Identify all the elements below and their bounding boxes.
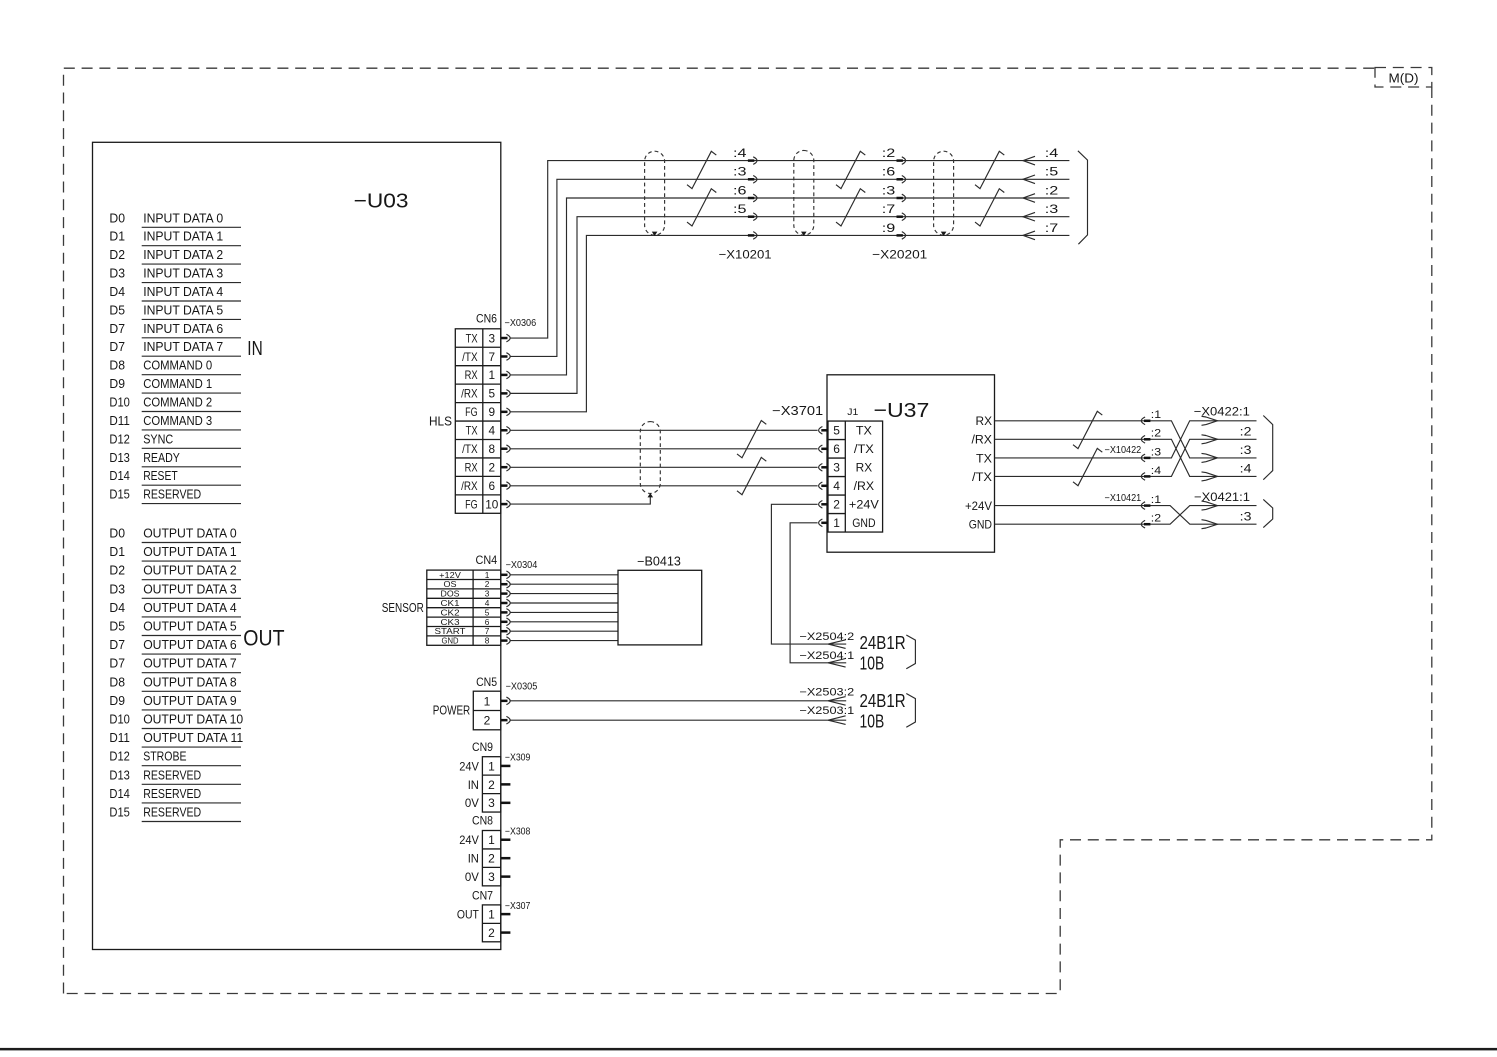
svg-text:2: 2 bbox=[488, 852, 495, 866]
svg-text:24B1R: 24B1R bbox=[860, 690, 906, 711]
svg-text:3: 3 bbox=[833, 461, 840, 475]
wire CN6 TX to U37 J1 via X3701 bbox=[510, 429, 817, 431]
svg-text:10B: 10B bbox=[860, 711, 885, 732]
wire U37 GND to X0421 crossover bbox=[995, 506, 1257, 525]
svg-text:OUTPUT DATA 7: OUTPUT DATA 7 bbox=[143, 656, 237, 671]
svg-text::9: :9 bbox=[882, 221, 896, 235]
svg-text::2: :2 bbox=[882, 146, 896, 160]
svg-text:−X307: −X307 bbox=[505, 901, 531, 912]
U37 connector J1 pin table bbox=[828, 421, 883, 532]
wire CN6 /RX pin5 riser to serial bus line 4 bbox=[510, 217, 1069, 394]
wire CN4 pin3 to B0413 bbox=[510, 593, 618, 595]
svg-text:2: 2 bbox=[484, 714, 491, 728]
svg-text:1: 1 bbox=[489, 368, 496, 382]
svg-text:8: 8 bbox=[485, 636, 490, 646]
svg-text:IN: IN bbox=[468, 852, 479, 866]
svg-text:D9: D9 bbox=[109, 693, 125, 708]
twisted-pair mark X3701 TX pair bbox=[737, 421, 766, 458]
connector CN5 on U03 bbox=[473, 691, 501, 730]
cable shield screen 2 on serial bus bbox=[794, 150, 814, 235]
svg-text:D2: D2 bbox=[109, 563, 125, 578]
svg-text:D2: D2 bbox=[109, 247, 125, 262]
svg-text::7: :7 bbox=[882, 202, 896, 216]
shield X3701 drain junction bbox=[648, 493, 654, 497]
connector CN6 on U03 bbox=[455, 329, 501, 514]
svg-text:OUTPUT DATA 4: OUTPUT DATA 4 bbox=[143, 600, 237, 615]
svg-text:POWER: POWER bbox=[433, 704, 470, 718]
svg-text:−X20201: −X20201 bbox=[872, 248, 927, 262]
svg-text:−X0421:1: −X0421:1 bbox=[1194, 490, 1250, 504]
svg-text:/TX: /TX bbox=[462, 350, 478, 364]
svg-text:10B: 10B bbox=[860, 653, 885, 674]
svg-text:4: 4 bbox=[833, 479, 840, 493]
svg-text:OUTPUT DATA 8: OUTPUT DATA 8 bbox=[143, 674, 237, 689]
svg-text:INPUT DATA 7: INPUT DATA 7 bbox=[143, 339, 223, 354]
svg-text:GND: GND bbox=[969, 518, 992, 532]
svg-text:TX: TX bbox=[976, 451, 992, 465]
svg-text:OUTPUT DATA 1: OUTPUT DATA 1 bbox=[143, 544, 237, 559]
svg-text:24V: 24V bbox=[459, 833, 479, 847]
wire U37 RX to X0422:1 crossover bbox=[995, 421, 1257, 458]
svg-text:−X0304: −X0304 bbox=[506, 560, 538, 571]
svg-text:RX: RX bbox=[465, 460, 478, 474]
svg-text:GND: GND bbox=[442, 636, 459, 646]
svg-text:IN: IN bbox=[468, 778, 479, 792]
cable shield screen 3 on serial bus bbox=[934, 151, 954, 235]
svg-text:J1: J1 bbox=[847, 407, 858, 418]
svg-text:HLS: HLS bbox=[429, 415, 452, 429]
svg-text:−X309: −X309 bbox=[505, 753, 531, 764]
wire U37 TX to X0422:3 crossover bbox=[995, 421, 1257, 458]
cable bracket 24B1R upper bbox=[906, 635, 915, 669]
svg-text:8: 8 bbox=[489, 442, 496, 456]
svg-text::4: :4 bbox=[1151, 465, 1161, 477]
svg-text:1: 1 bbox=[484, 694, 491, 708]
outgoing arrows to X0421 bbox=[1202, 501, 1218, 510]
svg-text:−X0306: −X0306 bbox=[505, 318, 537, 329]
svg-text:OUTPUT DATA 5: OUTPUT DATA 5 bbox=[143, 619, 237, 634]
svg-text:2: 2 bbox=[488, 926, 495, 940]
svg-text:D14: D14 bbox=[109, 468, 129, 483]
svg-text:2: 2 bbox=[488, 778, 495, 792]
wire CN4 pin4 to B0413 bbox=[510, 602, 618, 604]
svg-text:INPUT DATA 4: INPUT DATA 4 bbox=[143, 284, 223, 299]
svg-text:−X10201: −X10201 bbox=[719, 248, 772, 262]
svg-text:+24V: +24V bbox=[849, 498, 880, 512]
svg-text:TX: TX bbox=[466, 424, 478, 438]
outgoing arrows to X0422 bbox=[1202, 416, 1218, 425]
svg-text:D7: D7 bbox=[109, 656, 125, 671]
wire CN6 TX pin3 riser to serial bus line 1 bbox=[510, 161, 1069, 338]
twisted-pair mark group2 lines1-2 bbox=[836, 151, 865, 188]
svg-text:3: 3 bbox=[489, 331, 496, 345]
svg-text:INPUT DATA 2: INPUT DATA 2 bbox=[143, 247, 223, 262]
svg-text:RX: RX bbox=[976, 414, 993, 428]
CN5 pin plug-socket symbols bbox=[501, 697, 510, 705]
svg-text:/TX: /TX bbox=[972, 470, 992, 484]
twisted-pair mark X3701 RX pair bbox=[737, 457, 766, 494]
svg-text:GND: GND bbox=[852, 516, 875, 530]
wire CN5 pin2 to X2503:1 bbox=[510, 719, 846, 721]
wire U37 GND pin1 to X2504:1 bbox=[790, 523, 846, 663]
svg-text:1: 1 bbox=[488, 833, 495, 847]
svg-text:CN7: CN7 bbox=[472, 888, 493, 902]
svg-text:RESET: RESET bbox=[143, 468, 178, 483]
connector X10201 mating points bbox=[748, 157, 757, 165]
svg-text:D7: D7 bbox=[109, 637, 125, 652]
svg-text:RESERVED: RESERVED bbox=[143, 487, 201, 502]
wire CN4 pin7 to B0413 bbox=[510, 630, 618, 632]
svg-text:−U03: −U03 bbox=[354, 190, 409, 213]
twisted-pair mark group2 lines3-4 bbox=[836, 189, 865, 226]
svg-text:/RX: /RX bbox=[854, 479, 875, 493]
wire CN4 pin2 to B0413 bbox=[510, 583, 618, 585]
svg-text:RX: RX bbox=[856, 461, 873, 475]
svg-text:D4: D4 bbox=[109, 284, 125, 299]
svg-text:D7: D7 bbox=[109, 321, 125, 336]
svg-text:D1: D1 bbox=[109, 544, 125, 559]
svg-text:D1: D1 bbox=[109, 229, 125, 244]
page border dashed frame bbox=[64, 68, 1376, 993]
svg-text::4: :4 bbox=[733, 146, 747, 160]
CN6 pin plug-socket symbols bbox=[501, 334, 510, 342]
svg-text:D5: D5 bbox=[109, 619, 125, 634]
PLC module U03 outline bbox=[93, 142, 501, 949]
cable bracket X0421 bbox=[1263, 499, 1272, 527]
connector X10421 mating points bbox=[1141, 502, 1150, 510]
wire CN6 FG pin9 riser to serial bus line 5 bbox=[510, 235, 1069, 411]
svg-text:RESERVED: RESERVED bbox=[143, 786, 201, 801]
svg-text:OUTPUT DATA 6: OUTPUT DATA 6 bbox=[143, 637, 237, 652]
svg-text::1: :1 bbox=[1151, 409, 1161, 421]
svg-text:COMMAND 2: COMMAND 2 bbox=[143, 395, 212, 410]
connector X20201 mating points bbox=[897, 157, 906, 165]
arrow X2503:1 bbox=[828, 716, 846, 725]
svg-text:OUTPUT DATA 10: OUTPUT DATA 10 bbox=[143, 712, 243, 727]
svg-text:D0: D0 bbox=[109, 210, 125, 225]
wire U37 /TX to X0422:4 crossover bbox=[995, 439, 1257, 476]
svg-text:D15: D15 bbox=[109, 805, 129, 820]
svg-text:TX: TX bbox=[466, 331, 478, 345]
svg-text::6: :6 bbox=[882, 165, 896, 179]
svg-text:/RX: /RX bbox=[461, 387, 478, 401]
wire CN4 pin5 to B0413 bbox=[510, 611, 618, 613]
svg-text:6: 6 bbox=[489, 479, 496, 493]
svg-text::5: :5 bbox=[733, 202, 747, 216]
svg-text::3: :3 bbox=[1045, 202, 1059, 216]
svg-text:OUTPUT DATA 3: OUTPUT DATA 3 bbox=[143, 581, 237, 596]
svg-text:−X10421: −X10421 bbox=[1105, 493, 1142, 504]
connector CN7 on U03 bbox=[482, 905, 500, 942]
svg-text:D0: D0 bbox=[109, 526, 125, 541]
svg-text:−X2504:2: −X2504:2 bbox=[799, 631, 854, 643]
svg-text:24B1R: 24B1R bbox=[860, 632, 906, 653]
arrow X2504:1 bbox=[828, 659, 846, 668]
svg-text:OUTPUT DATA 9: OUTPUT DATA 9 bbox=[143, 693, 237, 708]
svg-text:/TX: /TX bbox=[462, 442, 478, 456]
arrow X2504:2 bbox=[828, 640, 846, 649]
svg-text:5: 5 bbox=[833, 424, 840, 438]
svg-text:10: 10 bbox=[485, 497, 499, 511]
connector X10422 mating points bbox=[1141, 417, 1150, 425]
wire U37 /RX to X0422:2 crossover bbox=[995, 439, 1257, 476]
shield 2 drain junction bbox=[801, 232, 807, 236]
svg-text:−X2503:1: −X2503:1 bbox=[799, 705, 854, 717]
wire CN4 pin1 to B0413 bbox=[510, 574, 618, 576]
svg-text:−X2503:2: −X2503:2 bbox=[799, 687, 854, 699]
svg-text:D11: D11 bbox=[109, 413, 129, 428]
cable shield screen 1 on serial bus bbox=[645, 151, 665, 235]
svg-text:INPUT DATA 1: INPUT DATA 1 bbox=[143, 229, 223, 244]
cable shield screen X3701 bbox=[640, 422, 660, 494]
wire CN6 /TX pin7 riser to serial bus line 2 bbox=[510, 179, 1069, 356]
svg-text:6: 6 bbox=[833, 442, 840, 456]
wire CN6 /TX to U37 J1 via X3701 bbox=[510, 448, 817, 450]
connector CN8 on U03 bbox=[482, 831, 500, 886]
svg-text:1: 1 bbox=[488, 908, 495, 922]
svg-text:M(D): M(D) bbox=[1389, 71, 1419, 86]
twisted-pair mark U37 TX pair bbox=[1073, 448, 1102, 485]
converter module U37 outline bbox=[827, 375, 995, 552]
connector CN9 on U03 bbox=[482, 757, 500, 812]
svg-text::3: :3 bbox=[733, 165, 747, 179]
svg-text:D11: D11 bbox=[109, 730, 129, 745]
svg-text:SENSOR: SENSOR bbox=[382, 601, 424, 615]
svg-text:OUTPUT DATA 11: OUTPUT DATA 11 bbox=[143, 730, 243, 745]
cable bracket X0422 bbox=[1263, 416, 1272, 480]
svg-text::4: :4 bbox=[1240, 462, 1252, 476]
svg-text:D12: D12 bbox=[109, 749, 129, 764]
svg-text:D8: D8 bbox=[109, 674, 125, 689]
svg-text:OUT: OUT bbox=[457, 908, 479, 922]
svg-text:COMMAND 1: COMMAND 1 bbox=[143, 376, 212, 391]
svg-text:READY: READY bbox=[143, 450, 180, 465]
svg-text:SYNC: SYNC bbox=[143, 431, 173, 446]
bottom title-block rule bbox=[0, 1048, 1497, 1051]
svg-text:D3: D3 bbox=[109, 581, 125, 596]
svg-text:D10: D10 bbox=[109, 395, 129, 410]
svg-text:0V: 0V bbox=[465, 870, 480, 884]
sheet label box M(D) bbox=[1375, 68, 1432, 88]
svg-text:TX: TX bbox=[856, 424, 872, 438]
twisted-pair mark group3 lines3-4 bbox=[975, 189, 1004, 226]
wire CN6 FG pin10 to cable shield bbox=[510, 497, 650, 504]
svg-text:3: 3 bbox=[488, 796, 495, 810]
svg-text:−B0413: −B0413 bbox=[637, 555, 681, 569]
svg-text:−U37: −U37 bbox=[874, 399, 930, 422]
incoming arrows at bus right end bbox=[1023, 156, 1035, 165]
svg-text:1: 1 bbox=[833, 516, 840, 530]
svg-text:D3: D3 bbox=[109, 266, 125, 281]
svg-text:CN9: CN9 bbox=[472, 740, 493, 754]
wire CN6 RX to U37 J1 via X3701 bbox=[510, 466, 817, 468]
svg-text:D7: D7 bbox=[109, 339, 125, 354]
svg-text:D13: D13 bbox=[109, 767, 129, 782]
svg-text:INPUT DATA 5: INPUT DATA 5 bbox=[143, 302, 223, 317]
svg-text::2: :2 bbox=[1045, 183, 1059, 197]
twisted-pair mark group1 lines1-2 bbox=[687, 151, 716, 188]
twisted-pair mark group1 lines3-4 bbox=[687, 189, 716, 226]
svg-text:−X0422:1: −X0422:1 bbox=[1194, 405, 1250, 419]
svg-text:CN6: CN6 bbox=[476, 311, 497, 325]
svg-text::2: :2 bbox=[1151, 513, 1161, 525]
svg-text:D14: D14 bbox=[109, 786, 129, 801]
svg-text:CN4: CN4 bbox=[476, 553, 498, 567]
svg-text::2: :2 bbox=[1151, 428, 1161, 440]
svg-text:OUTPUT DATA 2: OUTPUT DATA 2 bbox=[143, 563, 237, 578]
svg-text:D5: D5 bbox=[109, 302, 125, 317]
svg-text:D15: D15 bbox=[109, 487, 129, 502]
svg-text:INPUT DATA 0: INPUT DATA 0 bbox=[143, 210, 223, 225]
wire CN4 pin8 to B0413 bbox=[510, 640, 618, 642]
svg-text::3: :3 bbox=[1240, 509, 1252, 523]
svg-text:FG: FG bbox=[465, 497, 478, 511]
svg-text:COMMAND 0: COMMAND 0 bbox=[143, 358, 212, 373]
svg-text:D10: D10 bbox=[109, 712, 129, 727]
svg-text::1: :1 bbox=[1151, 494, 1161, 506]
svg-text:/TX: /TX bbox=[854, 442, 874, 456]
CN4 pin plug-socket symbols bbox=[501, 571, 510, 579]
connector CN4 on U03 bbox=[427, 570, 501, 645]
svg-text:/RX: /RX bbox=[461, 479, 478, 493]
svg-text:RESERVED: RESERVED bbox=[143, 767, 201, 782]
svg-text:0V: 0V bbox=[465, 796, 480, 810]
svg-text::5: :5 bbox=[1045, 165, 1059, 179]
svg-text:1: 1 bbox=[488, 759, 495, 773]
svg-text:STROBE: STROBE bbox=[143, 749, 186, 764]
svg-text:INPUT DATA 6: INPUT DATA 6 bbox=[143, 321, 223, 336]
svg-text:CN8: CN8 bbox=[472, 814, 493, 828]
cable bracket 24B1R lower bbox=[906, 694, 915, 728]
svg-text::3: :3 bbox=[1240, 443, 1252, 457]
svg-text:OUTPUT DATA 0: OUTPUT DATA 0 bbox=[143, 526, 237, 541]
svg-text:9: 9 bbox=[489, 405, 496, 419]
wire CN6 RX pin1 riser to serial bus line 3 bbox=[510, 198, 1069, 375]
svg-text:CN5: CN5 bbox=[476, 675, 497, 689]
svg-text:COMMAND 3: COMMAND 3 bbox=[143, 413, 212, 428]
svg-text:3: 3 bbox=[488, 870, 495, 884]
wire U37 +24V pin2 to X2504:2 bbox=[771, 504, 846, 644]
svg-text:2: 2 bbox=[489, 460, 496, 474]
svg-text:−X2504:1: −X2504:1 bbox=[799, 650, 854, 662]
wire CN6 /RX to U37 J1 via X3701 bbox=[510, 485, 817, 487]
wire CN5 pin1 to X2503:2 bbox=[510, 700, 846, 702]
svg-text:D9: D9 bbox=[109, 376, 125, 391]
sensor block B0413 outline bbox=[618, 570, 702, 645]
svg-text:RESERVED: RESERVED bbox=[143, 805, 201, 820]
svg-text::2: :2 bbox=[1240, 425, 1252, 439]
svg-text:INPUT DATA 3: INPUT DATA 3 bbox=[143, 266, 223, 281]
twisted-pair mark U37 RX pair bbox=[1073, 411, 1102, 448]
svg-text:D8: D8 bbox=[109, 358, 125, 373]
shield 3 drain junction bbox=[941, 232, 947, 236]
svg-text:+24V: +24V bbox=[965, 499, 993, 513]
svg-text::3: :3 bbox=[882, 183, 896, 197]
svg-text:RX: RX bbox=[465, 368, 478, 382]
twisted-pair mark group3 lines1-2 bbox=[975, 151, 1004, 188]
svg-text:5: 5 bbox=[489, 387, 496, 401]
svg-text:7: 7 bbox=[489, 350, 496, 364]
svg-text:4: 4 bbox=[489, 424, 496, 438]
wire U37 +24V to X0421 crossover bbox=[995, 506, 1257, 525]
svg-text:2: 2 bbox=[833, 498, 840, 512]
J1 pin socket symbols bbox=[819, 427, 828, 435]
svg-text:−X308: −X308 bbox=[505, 827, 531, 838]
svg-text::6: :6 bbox=[733, 183, 747, 197]
wire CN4 pin6 to B0413 bbox=[510, 621, 618, 623]
bus cable bracket bbox=[1078, 151, 1088, 244]
arrow X2503:2 bbox=[828, 697, 846, 706]
svg-text:−X3701: −X3701 bbox=[772, 403, 823, 418]
svg-text:−X10422: −X10422 bbox=[1105, 445, 1142, 456]
svg-text:D4: D4 bbox=[109, 600, 125, 615]
svg-text:IN: IN bbox=[247, 337, 262, 360]
svg-text:D13: D13 bbox=[109, 450, 129, 465]
svg-text:FG: FG bbox=[465, 405, 478, 419]
svg-text::7: :7 bbox=[1045, 221, 1059, 235]
svg-text:D12: D12 bbox=[109, 431, 129, 446]
svg-text:OUT: OUT bbox=[243, 625, 284, 650]
shield 1 drain junction bbox=[652, 232, 658, 236]
svg-text:24V: 24V bbox=[459, 759, 479, 773]
svg-text::4: :4 bbox=[1045, 146, 1059, 160]
svg-text::3: :3 bbox=[1151, 446, 1161, 458]
svg-text:−X0305: −X0305 bbox=[506, 682, 538, 693]
svg-text:/RX: /RX bbox=[972, 433, 993, 447]
